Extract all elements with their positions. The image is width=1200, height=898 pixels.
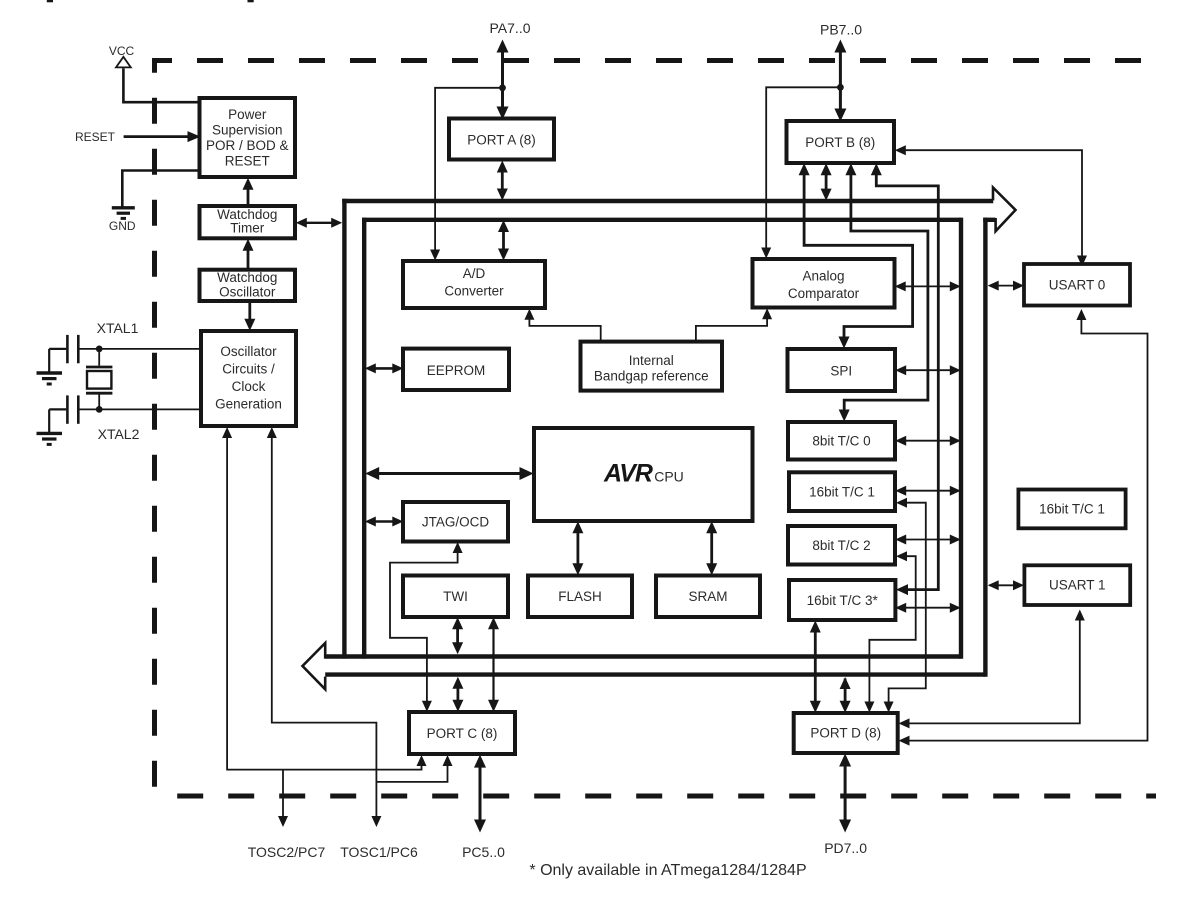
svg-text:A/D: A/D	[463, 266, 486, 281]
wire double arrow bus to PORT D	[840, 677, 851, 713]
wire double arrow bus to JTAG/OCD	[365, 517, 404, 527]
box: USART 0	[1024, 264, 1130, 306]
box: TWI	[403, 576, 508, 618]
svg-text:VCC: VCC	[109, 44, 135, 58]
wire double arrow 16bit T/C 1 to bus	[895, 486, 961, 496]
crystal Y1 top lead	[98, 349, 100, 366]
svg-text:RESET: RESET	[225, 154, 270, 169]
wire USART 0 to PORT B	[895, 145, 1087, 266]
wire branch TOSC1 to PORT C	[376, 755, 452, 782]
wire TWI to PORT C	[488, 617, 499, 712]
svg-text:PB7..0: PB7..0	[820, 22, 862, 38]
box: A/D Converter	[403, 261, 545, 308]
wire arrow Watchdog Oscillator to Watchdog Timer	[243, 239, 254, 270]
wire external pin PB7..0 double arrow	[834, 40, 846, 122]
bus outer left edge	[342, 199, 346, 659]
crystal Y1 bottom lead	[98, 394, 100, 409]
svg-text:* Only available in ATmega1284: * Only available in ATmega1284/1284P	[529, 862, 806, 879]
svg-text:POR / BOD &: POR / BOD &	[206, 138, 289, 153]
box: JTAG/OCD	[403, 502, 508, 542]
node PA junction	[499, 84, 506, 91]
svg-text:GND: GND	[109, 219, 136, 233]
wire PB to Analog Comparator	[761, 87, 840, 258]
svg-text:Comparator: Comparator	[788, 286, 860, 301]
wire USART 1 to PORT D	[899, 610, 1085, 729]
wire arrow Watchdog Oscillator to Oscillator Circuits	[244, 301, 255, 331]
node XTAL1 junction	[96, 346, 103, 353]
svg-text:Analog: Analog	[802, 269, 844, 284]
wire double arrow SPI to bus	[895, 365, 961, 375]
wire 16bit T/C 1 to PORT D	[884, 498, 926, 713]
box: PORT C (8)	[409, 712, 515, 754]
crystal Y1 body	[87, 371, 111, 389]
box: Watchdog Timer	[200, 206, 296, 238]
bus inner bottom edge	[325, 654, 961, 658]
svg-text:Converter: Converter	[444, 284, 504, 299]
wire PORT B to 16bit T/C 3	[871, 163, 939, 595]
box: SRAM	[656, 576, 760, 618]
wire double arrow bus to USART 1	[988, 580, 1024, 590]
wire Oscillator to PORT C (TOSC2/PC7)	[222, 427, 426, 770]
wire XTAL2 net	[79, 408, 201, 410]
svg-text:Bandgap reference: Bandgap reference	[594, 368, 709, 383]
svg-text:USART 1: USART 1	[1049, 578, 1106, 593]
wire RESET into Power Supervision	[124, 131, 201, 142]
box: Oscillator Circuits / Clock Generation	[201, 331, 296, 426]
wire C2 to ground	[48, 409, 50, 432]
wire PA to A/D Converter	[430, 88, 502, 261]
wire Bandgap to Analog Comparator	[696, 308, 772, 341]
wire 8bit T/C 2 to PORT D	[864, 551, 915, 712]
svg-text:CPU: CPU	[654, 469, 684, 485]
bus arrowhead right (hollow)	[993, 188, 1016, 232]
svg-text:16bit T/C 3*: 16bit T/C 3*	[807, 593, 879, 608]
wire double arrow TWI to bus	[452, 617, 463, 654]
svg-text:XTAL1: XTAL1	[97, 320, 139, 336]
box: FLASH	[528, 576, 632, 618]
wire double arrow bus to CPU	[365, 467, 533, 480]
wire Bandgap to A/D Converter	[524, 309, 600, 342]
bus outer top edge	[342, 199, 994, 203]
wire external pin PD7..0 double arrow	[839, 754, 851, 833]
ground symbol at C1	[37, 373, 63, 384]
box: 16bit T/C 1 (right)	[1018, 490, 1125, 529]
bus inner top edge	[362, 218, 961, 222]
wire C1 to ground	[48, 349, 50, 372]
wire branch to TOSC2/PC7 pin	[278, 770, 288, 827]
svg-text:PA7..0: PA7..0	[490, 20, 531, 36]
capacitor C1 (XTAL1)	[49, 335, 78, 363]
chip boundary dashed top edge	[152, 58, 1142, 63]
wire double arrow CPU to SRAM	[706, 521, 717, 575]
wire arrow Watchdog Timer to Power Supervision	[243, 178, 254, 206]
box: 8bit T/C 2	[788, 526, 895, 565]
wire double arrow bus to EEPROM	[365, 363, 404, 373]
wire external pin PA7..0 double arrow	[497, 40, 509, 120]
svg-text:TOSC2/PC7: TOSC2/PC7	[248, 844, 326, 860]
svg-text:JTAG/OCD: JTAG/OCD	[422, 515, 490, 530]
wire double arrow Analog Comparator to bus	[895, 281, 961, 291]
box: SPI	[788, 349, 896, 391]
wire double arrow 8bit T/C 2 to bus	[895, 535, 961, 545]
wire GND from Power Supervision	[122, 171, 199, 207]
svg-text:Generation: Generation	[215, 397, 282, 412]
box: Internal Bandgap reference	[581, 342, 723, 391]
wire PORT B to 8bit T/C 0	[839, 163, 928, 421]
svg-text:Circuits /: Circuits /	[222, 362, 275, 377]
capacitor C2 (XTAL2)	[49, 395, 78, 423]
box: PORT D (8)	[794, 713, 898, 753]
svg-text:RESET: RESET	[75, 130, 116, 144]
svg-text:PORT B (8): PORT B (8)	[805, 135, 875, 150]
wire VCC to Power Supervision	[123, 68, 199, 102]
svg-text:8bit T/C 2: 8bit T/C 2	[812, 538, 870, 553]
bus arrowhead left (hollow)	[303, 643, 326, 689]
svg-text:Oscillator: Oscillator	[220, 344, 277, 359]
node XTAL2 junction	[96, 406, 103, 413]
wire Oscillator to PORT C (TOSC1/PC6)	[267, 427, 382, 827]
wire double arrow bus to A/D Converter	[498, 220, 509, 261]
svg-text:Oscillator: Oscillator	[219, 285, 276, 300]
crystal Y1 top plate	[86, 366, 112, 369]
bus arrow notch cap	[983, 218, 995, 222]
svg-text:PORT A (8): PORT A (8)	[467, 133, 536, 148]
wire XTAL1 net	[79, 348, 201, 350]
svg-text:8bit T/C 0: 8bit T/C 0	[812, 434, 870, 449]
page crop text sliver 1	[47, 0, 53, 2]
wire double arrow PORT B to bus	[821, 163, 832, 200]
box: 8bit T/C 0	[788, 422, 895, 460]
svg-text:FLASH: FLASH	[558, 589, 602, 604]
page crop text sliver 2	[248, 0, 254, 2]
svg-text:Internal: Internal	[629, 353, 674, 368]
svg-text:AVR: AVR	[603, 460, 653, 488]
wire double arrow 16bit T/C 3 to bus	[895, 603, 961, 613]
wire JTAG/OCD to PORT C	[390, 542, 463, 712]
svg-text:16bit T/C 1: 16bit T/C 1	[809, 485, 875, 500]
svg-text:PC5..0: PC5..0	[462, 844, 505, 860]
bus outer right edge	[983, 218, 987, 677]
box: USART 1	[1024, 565, 1130, 605]
svg-text:SRAM: SRAM	[688, 589, 727, 604]
box: Analog Comparator	[753, 259, 895, 308]
svg-text:PORT D (8): PORT D (8)	[810, 726, 881, 741]
wire double arrow bus to USART 0	[988, 281, 1024, 291]
svg-text:Watchdog: Watchdog	[217, 270, 277, 285]
bus outer bottom edge	[325, 672, 985, 676]
svg-text:16bit T/C 1: 16bit T/C 1	[1039, 502, 1105, 517]
box: EEPROM	[403, 349, 509, 390]
wire USART 0 to PORT D	[899, 309, 1148, 746]
box: AVR CPU	[534, 428, 753, 521]
box: 16bit T/C 3*	[789, 580, 895, 620]
VCC symbol (hollow triangle)	[116, 57, 131, 68]
svg-text:PD7..0: PD7..0	[824, 840, 867, 856]
wire external pin PC5..0 double arrow	[474, 755, 486, 833]
box: PORT A (8)	[449, 119, 554, 160]
svg-text:Supervision: Supervision	[212, 123, 283, 138]
svg-text:SPI: SPI	[830, 364, 852, 379]
wire double arrow 8bit T/C 0 to bus	[895, 436, 961, 446]
box: Watchdog Oscillator	[200, 270, 296, 301]
svg-text:USART 0: USART 0	[1049, 278, 1106, 293]
wire double arrow CPU to FLASH	[572, 521, 583, 575]
crystal Y1 bottom plate	[86, 392, 112, 395]
svg-text:PORT C (8): PORT C (8)	[427, 726, 498, 741]
ground symbol GND	[112, 208, 135, 219]
wire double arrow PORT A to bus	[497, 161, 508, 201]
wire double arrow 16bit T/C 3 to PORT D	[810, 621, 821, 713]
node PB junction	[837, 84, 844, 91]
svg-text:EEPROM: EEPROM	[427, 363, 486, 378]
svg-text:TWI: TWI	[443, 589, 468, 604]
svg-text:TOSC1/PC6: TOSC1/PC6	[340, 844, 418, 860]
box: 16bit T/C 1	[789, 472, 895, 511]
svg-text:Clock: Clock	[232, 379, 266, 394]
svg-text:XTAL2: XTAL2	[98, 426, 140, 442]
wire PORT B to SPI	[799, 163, 913, 348]
bus inner left edge	[362, 218, 366, 659]
chip boundary dashed left edge	[152, 58, 157, 796]
ground symbol at C2	[37, 433, 63, 444]
chip boundary dashed bottom edge	[155, 794, 1157, 799]
wire double arrow bus to PORT C	[452, 677, 463, 712]
svg-text:Power: Power	[228, 107, 267, 122]
bus inner right edge	[959, 218, 963, 659]
svg-text:Timer: Timer	[230, 221, 264, 236]
box: Power Supervision POR / BOD & RESET	[200, 98, 296, 177]
box: PORT B (8)	[787, 121, 895, 163]
wire double arrow Watchdog Timer to bus	[296, 218, 342, 228]
